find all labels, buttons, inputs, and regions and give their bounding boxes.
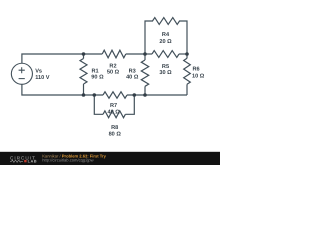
svg-text:110 V: 110 V <box>35 75 50 81</box>
wire R5 to node C <box>179 53 187 55</box>
svg-text:90 Ω: 90 Ω <box>91 75 104 81</box>
svg-text:40 Ω: 40 Ω <box>126 75 139 81</box>
footer bar <box>0 152 220 165</box>
svg-text:R1: R1 <box>92 68 99 74</box>
svg-text:10 Ω: 10 Ω <box>192 74 205 80</box>
wire node B up to R4 loop top <box>145 21 153 54</box>
svg-text:50 Ω: 50 Ω <box>107 70 120 76</box>
node C dot <box>185 52 189 56</box>
resistor R3 <box>141 54 148 95</box>
wire R8 branch right rise <box>125 95 134 114</box>
svg-text:80 Ω: 80 Ω <box>109 131 122 137</box>
resistor R6 <box>184 54 191 95</box>
svg-text:R7: R7 <box>110 103 117 109</box>
wire node A to R2 <box>84 53 103 55</box>
svg-text:40 Ω: 40 Ω <box>107 110 120 116</box>
svg-text:30 Ω: 30 Ω <box>159 70 172 76</box>
node B dot <box>143 52 147 56</box>
node F dot (R8 branch right) <box>133 93 137 97</box>
wire top-left from Vs to node A <box>22 54 84 63</box>
resistor R5 <box>152 51 179 58</box>
resistor R4 <box>153 18 180 25</box>
voltage source Vs <box>11 63 32 84</box>
wire R2 to node B <box>126 53 145 55</box>
node G dot (R3 bottom) <box>143 93 147 97</box>
resistor R7 <box>103 92 127 98</box>
wire bottom-right R7 to R6 bottom <box>127 94 187 96</box>
wire R4 to right column top <box>179 21 187 54</box>
resistor R1 <box>80 54 87 95</box>
svg-text:Vs: Vs <box>35 68 42 74</box>
wire node B to R5 <box>145 53 152 55</box>
resistor R8 <box>103 111 125 118</box>
svg-text:R8: R8 <box>111 125 118 131</box>
node E dot (R8 branch left) <box>93 93 97 97</box>
node A dot <box>82 52 86 56</box>
svg-text:http://circuitlab.com/cqg2jpw: http://circuitlab.com/cqg2jpw <box>42 157 93 162</box>
footer logo CircuitLab <box>10 155 37 163</box>
wire R8 branch left drop <box>94 95 103 114</box>
resistor R2 <box>102 50 126 58</box>
wire bottom-left from Vs to R7 <box>22 84 103 95</box>
svg-text:20 Ω: 20 Ω <box>159 39 172 45</box>
node D dot (R1 bottom) <box>82 93 86 97</box>
svg-text:R6: R6 <box>193 67 200 73</box>
svg-text:R4: R4 <box>162 32 170 38</box>
svg-text:LAB: LAB <box>28 158 37 163</box>
